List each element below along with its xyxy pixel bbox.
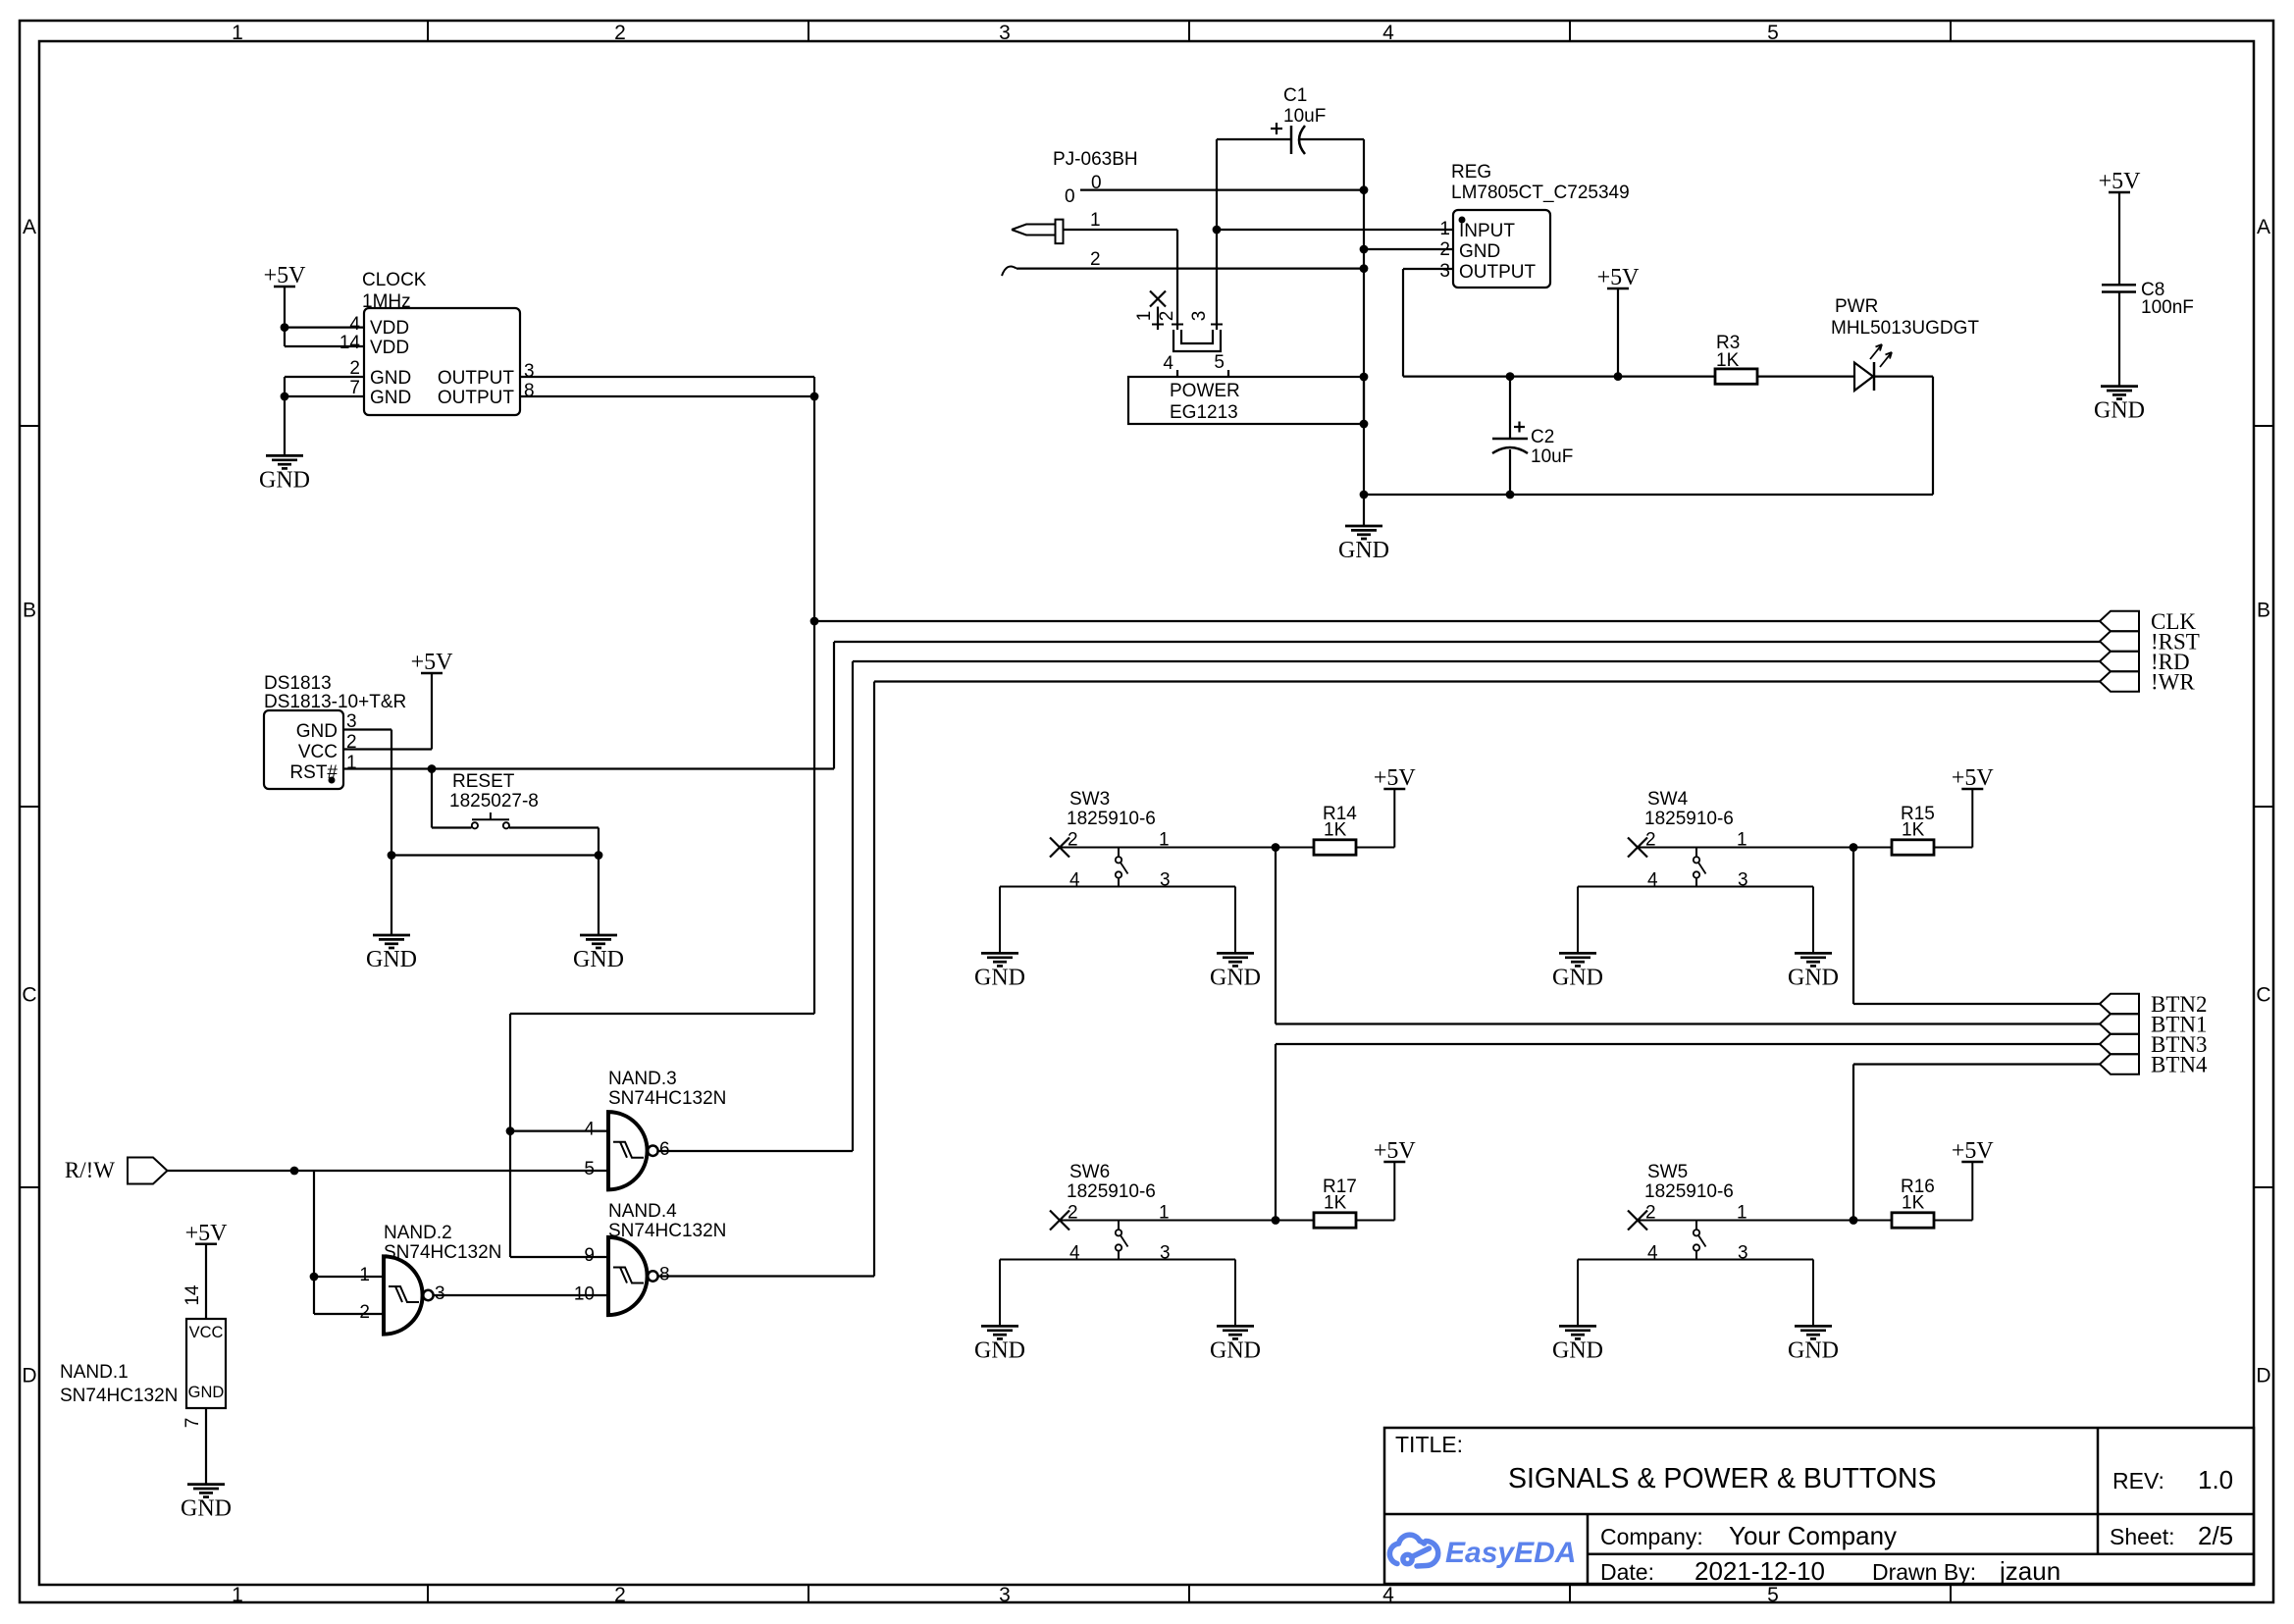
svg-text:10: 10: [574, 1284, 595, 1305]
svg-text:C2: C2: [1531, 427, 1554, 447]
svg-text:2: 2: [1439, 239, 1450, 260]
svg-text:PJ-063BH: PJ-063BH: [1053, 149, 1138, 170]
svg-text:GND: GND: [188, 1384, 225, 1401]
svg-text:4: 4: [584, 1120, 595, 1140]
svg-text:3: 3: [1439, 261, 1450, 282]
svg-text:2: 2: [614, 22, 626, 44]
svg-text:1825910-6: 1825910-6: [1644, 1181, 1734, 1202]
svg-text:NAND.4: NAND.4: [608, 1201, 677, 1222]
svg-text:0: 0: [1065, 186, 1075, 207]
svg-text:1K: 1K: [1902, 1193, 1925, 1214]
svg-text:5: 5: [1214, 352, 1225, 373]
svg-text:1825910-6: 1825910-6: [1067, 809, 1156, 829]
svg-text:VCC: VCC: [189, 1324, 224, 1341]
svg-text:4: 4: [1382, 1584, 1394, 1606]
svg-text:SN74HC132N: SN74HC132N: [60, 1386, 178, 1406]
svg-text:RESET: RESET: [452, 771, 515, 792]
svg-text:VDD: VDD: [370, 338, 409, 358]
svg-text:7: 7: [349, 378, 360, 398]
svg-text:8: 8: [659, 1265, 670, 1285]
svg-text:2/5: 2/5: [2198, 1521, 2233, 1550]
svg-text:SW4: SW4: [1647, 789, 1689, 810]
svg-text:2021-12-10: 2021-12-10: [1694, 1556, 1825, 1586]
svg-text:3: 3: [524, 361, 535, 382]
svg-text:Sheet:: Sheet:: [2110, 1524, 2175, 1549]
svg-text:C1: C1: [1283, 85, 1307, 106]
svg-text:3: 3: [435, 1283, 445, 1304]
svg-text:R/!W: R/!W: [65, 1158, 115, 1182]
svg-text:EasyEDA: EasyEDA: [1445, 1537, 1576, 1569]
svg-text:4: 4: [349, 314, 360, 335]
svg-text:5: 5: [1767, 22, 1779, 44]
svg-text:1825027-8: 1825027-8: [449, 791, 539, 812]
svg-text:SN74HC132N: SN74HC132N: [608, 1221, 726, 1241]
svg-text:3: 3: [999, 22, 1011, 44]
svg-text:1: 1: [1134, 311, 1155, 322]
svg-text:SN74HC132N: SN74HC132N: [608, 1088, 726, 1109]
svg-text:1: 1: [232, 22, 243, 44]
svg-text:NAND.3: NAND.3: [608, 1069, 677, 1089]
svg-text:1K: 1K: [1324, 820, 1347, 841]
svg-text:PWR: PWR: [1835, 296, 1878, 317]
svg-text:1: 1: [232, 1584, 243, 1606]
svg-text:Drawn By:: Drawn By:: [1872, 1559, 1976, 1585]
svg-text:4: 4: [1163, 353, 1173, 374]
svg-text:1: 1: [1439, 219, 1450, 239]
svg-text:SW3: SW3: [1069, 789, 1110, 810]
svg-text:2: 2: [359, 1302, 370, 1323]
svg-text:1: 1: [346, 753, 357, 773]
svg-text:REG: REG: [1451, 162, 1491, 183]
svg-text:2: 2: [1090, 249, 1101, 270]
svg-text:B: B: [2257, 600, 2270, 622]
svg-text:C: C: [2256, 984, 2270, 1007]
svg-text:1K: 1K: [1324, 1193, 1347, 1214]
svg-text:A: A: [2257, 216, 2270, 238]
svg-text:D: D: [2256, 1365, 2270, 1388]
svg-text:Company:: Company:: [1600, 1524, 1703, 1549]
svg-text:1K: 1K: [1902, 820, 1925, 841]
svg-text:RST#: RST#: [289, 762, 338, 783]
svg-text:SIGNALS & POWER & BUTTONS: SIGNALS & POWER & BUTTONS: [1508, 1463, 1937, 1494]
svg-text:OUTPUT: OUTPUT: [438, 388, 515, 408]
svg-text:14: 14: [182, 1284, 203, 1306]
svg-text:6: 6: [659, 1139, 670, 1160]
svg-text:SW6: SW6: [1069, 1162, 1110, 1182]
svg-text:2: 2: [614, 1584, 626, 1606]
svg-text:5: 5: [1767, 1584, 1779, 1606]
svg-text:3: 3: [999, 1584, 1011, 1606]
svg-text:MHL5013UGDGT: MHL5013UGDGT: [1831, 318, 1979, 339]
svg-text:14: 14: [339, 333, 361, 353]
svg-text:SW5: SW5: [1647, 1162, 1688, 1182]
svg-text:LM7805CT_C725349: LM7805CT_C725349: [1451, 183, 1630, 203]
svg-text:VCC: VCC: [298, 742, 338, 762]
svg-text:VDD: VDD: [370, 318, 409, 339]
svg-text:1: 1: [359, 1265, 370, 1285]
svg-text:CLOCK: CLOCK: [362, 270, 427, 290]
svg-text:D: D: [22, 1365, 36, 1388]
svg-text:OUTPUT: OUTPUT: [1459, 262, 1537, 283]
svg-text:BTN4: BTN4: [2151, 1053, 2208, 1077]
svg-text:REV:: REV:: [2112, 1468, 2164, 1493]
svg-text:3: 3: [1189, 311, 1210, 322]
svg-text:9: 9: [584, 1245, 595, 1266]
svg-text:1825910-6: 1825910-6: [1067, 1181, 1156, 1202]
svg-text:1.0: 1.0: [2198, 1465, 2233, 1494]
svg-text:DS1813-10+T&R: DS1813-10+T&R: [264, 692, 406, 712]
svg-text:!WR: !WR: [2151, 670, 2195, 695]
svg-text:A: A: [23, 216, 36, 238]
svg-text:B: B: [23, 600, 36, 622]
svg-text:POWER: POWER: [1170, 381, 1240, 401]
svg-text:DS1813: DS1813: [264, 673, 332, 694]
svg-text:7: 7: [182, 1418, 203, 1429]
svg-text:100nF: 100nF: [2141, 297, 2194, 318]
svg-text:2: 2: [1157, 311, 1177, 322]
svg-text:Your Company: Your Company: [1729, 1521, 1897, 1550]
svg-text:Date:: Date:: [1600, 1559, 1654, 1585]
svg-text:NAND.1: NAND.1: [60, 1362, 129, 1383]
svg-text:5: 5: [584, 1159, 595, 1179]
svg-text:2: 2: [349, 358, 360, 379]
svg-text:10uF: 10uF: [1283, 106, 1326, 127]
svg-text:1825910-6: 1825910-6: [1644, 809, 1734, 829]
svg-text:NAND.2: NAND.2: [384, 1223, 452, 1243]
svg-text:GND: GND: [1459, 241, 1500, 262]
svg-text:EG1213: EG1213: [1170, 402, 1238, 423]
svg-text:INPUT: INPUT: [1459, 221, 1515, 241]
svg-text:C: C: [22, 984, 36, 1007]
svg-text:GND: GND: [370, 368, 411, 389]
svg-text:OUTPUT: OUTPUT: [438, 368, 515, 389]
svg-text:GND: GND: [296, 721, 338, 742]
svg-text:8: 8: [524, 381, 535, 401]
svg-text:jzaun: jzaun: [1999, 1556, 2060, 1586]
svg-text:GND: GND: [370, 388, 411, 408]
svg-text:1: 1: [1090, 210, 1101, 231]
svg-text:10uF: 10uF: [1531, 446, 1573, 467]
svg-text:4: 4: [1382, 22, 1394, 44]
svg-text:TITLE:: TITLE:: [1395, 1432, 1463, 1457]
